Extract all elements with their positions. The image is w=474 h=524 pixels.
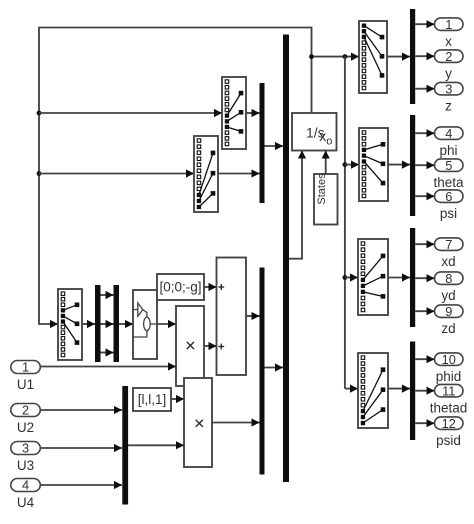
svg-text:8: 8 <box>445 271 452 286</box>
wire right vertical bus <box>344 57 346 389</box>
input port 1 <box>11 361 41 374</box>
svg-text:U1: U1 <box>17 377 34 392</box>
input port 4 <box>11 479 41 492</box>
output port 2 <box>435 50 464 63</box>
wire integrator out to Selector1 <box>312 56 360 58</box>
svg-text:yd: yd <box>441 288 455 303</box>
output port 1 <box>435 18 464 31</box>
wire Selector5 out <box>82 323 95 325</box>
wire Product1 out <box>204 345 217 347</box>
svg-text:10: 10 <box>442 352 456 367</box>
constant [0;0;-g] <box>157 274 204 300</box>
subsystem Fcn (rotation) block <box>133 290 157 359</box>
wire Selector1 out <box>387 56 410 58</box>
wire to output 9 <box>415 310 434 312</box>
wire SelectorA out <box>246 112 260 114</box>
wire to output 10 <box>415 358 434 360</box>
wire Fcn out <box>157 323 176 325</box>
wire to output 7 <box>415 243 434 245</box>
output port 11 <box>435 384 464 397</box>
selector Selector2 (rows 4:6) <box>359 128 388 201</box>
wire U3 to mux <box>41 447 123 449</box>
wire SelectorB out <box>218 173 260 175</box>
product block Product1 <box>176 306 204 386</box>
wire U2 to mux <box>41 409 123 411</box>
selector Selector5 (rows 4:6) <box>58 289 82 360</box>
wire Selector3 out <box>388 277 410 279</box>
selector Selector3 (rows 7:9) <box>358 239 388 315</box>
wire Product2 out <box>212 422 260 424</box>
wire to output 11 <box>415 390 434 392</box>
wire to output 6 <box>415 195 434 197</box>
wire DemuxA-MuxB 1 <box>101 294 114 296</box>
mux MuxU (thin bar) <box>122 386 128 505</box>
wire to output 4 <box>415 132 434 134</box>
wire U4 to mux <box>41 484 123 486</box>
constant [l,l,1] <box>133 388 171 411</box>
demux Demux3 <box>410 228 415 327</box>
selector SelectorA (rows 7:9) <box>222 77 246 149</box>
svg-text:psi: psi <box>440 206 457 221</box>
wire Selector2 out <box>388 164 410 166</box>
selector Selector1 (rows 1:3) <box>359 21 387 93</box>
svg-text:U4: U4 <box>17 495 35 510</box>
output port 6 <box>435 190 464 203</box>
wire to SelectorB <box>39 173 194 175</box>
output port 4 <box>435 127 464 140</box>
svg-text:U2: U2 <box>17 420 34 435</box>
svg-text:5: 5 <box>445 158 452 173</box>
wire to Selector3 <box>345 277 358 279</box>
svg-text:11: 11 <box>442 383 455 398</box>
wire to output 12 <box>415 422 434 424</box>
wire to Selector4 <box>345 388 358 390</box>
demux Demux2 <box>410 115 415 216</box>
product block Product2 <box>184 378 212 467</box>
svg-text:12: 12 <box>442 416 456 431</box>
svg-text:x: x <box>445 34 452 49</box>
input port 2 <box>11 404 41 417</box>
output port 5 <box>435 159 464 172</box>
wire States to integrator IC <box>325 151 327 175</box>
wire U1 to Product1 <box>41 366 177 368</box>
svg-text:y: y <box>445 66 452 81</box>
constant States (rotated) <box>314 174 338 225</box>
svg-text:o: o <box>326 136 332 148</box>
wire to SelectorA <box>39 112 222 114</box>
svg-text:2: 2 <box>445 49 452 64</box>
wire constant-l out <box>171 398 184 400</box>
wire Add out <box>246 315 260 317</box>
svg-text:2: 2 <box>22 403 29 418</box>
svg-text:zd: zd <box>441 321 455 336</box>
svg-text:phi: phi <box>439 143 457 158</box>
wire to output 3 <box>415 88 434 90</box>
svg-text:4: 4 <box>445 126 452 141</box>
output port 9 <box>435 305 464 318</box>
wire Mux1 out <box>265 145 284 147</box>
demux DemuxA (thin bar) <box>95 285 101 362</box>
wire DemuxA-MuxB 2 <box>101 323 114 325</box>
wire constant-g out <box>204 286 217 288</box>
output port 10 <box>435 353 464 366</box>
selector Selector4 (rows 10:12) <box>358 353 388 428</box>
output port 3 <box>435 82 464 95</box>
sum block Add <box>217 258 247 376</box>
output port 7 <box>435 238 464 251</box>
mux BigMux (thick bar) <box>283 35 289 483</box>
wire to output 8 <box>415 277 434 279</box>
svg-text:thetad: thetad <box>430 401 468 416</box>
wire DemuxA-MuxB 3 <box>101 352 114 354</box>
svg-text:phid: phid <box>436 369 462 384</box>
svg-text:xd: xd <box>441 254 455 269</box>
svg-text:z: z <box>445 99 452 114</box>
wire feedback from integrator output to Selector5 <box>39 28 312 325</box>
svg-text:1: 1 <box>22 360 29 375</box>
wire Mux2 out <box>265 367 284 369</box>
demux Demux1 <box>410 9 415 104</box>
mux Mux1 (thin bar) <box>260 83 265 203</box>
wire to Selector2 <box>345 164 359 166</box>
svg-text:States: States <box>316 173 328 205</box>
selector SelectorB (rows 10:12) <box>194 136 218 212</box>
svg-text:6: 6 <box>445 189 452 204</box>
svg-text:[l,l,1]: [l,l,1] <box>138 392 167 407</box>
svg-text:[0;0;-g]: [0;0;-g] <box>159 280 201 295</box>
wire to output 5 <box>415 164 434 166</box>
svg-text:7: 7 <box>445 237 452 252</box>
svg-text:4: 4 <box>22 478 29 493</box>
mux MuxB (thin bar) <box>114 285 120 362</box>
wire Selector4 out <box>388 388 410 390</box>
wire MuxU out <box>128 444 184 446</box>
mux Mux2 (thin bar) <box>260 268 265 475</box>
svg-text:3: 3 <box>445 81 452 96</box>
output port 12 <box>435 417 464 430</box>
wire MuxB out <box>119 323 133 325</box>
wire to output 2 <box>415 55 434 57</box>
input port 3 <box>11 442 41 455</box>
wire to output 1 <box>415 23 434 25</box>
wire BigMux to integrator <box>289 151 302 259</box>
svg-text:1: 1 <box>445 17 452 32</box>
svg-text:psid: psid <box>436 433 461 448</box>
svg-text:U3: U3 <box>17 458 34 473</box>
demux Demux4 <box>410 342 415 441</box>
svg-text:9: 9 <box>445 304 452 319</box>
output port 8 <box>435 272 464 285</box>
integrator 1/s <box>292 113 337 151</box>
svg-text:3: 3 <box>22 441 29 456</box>
